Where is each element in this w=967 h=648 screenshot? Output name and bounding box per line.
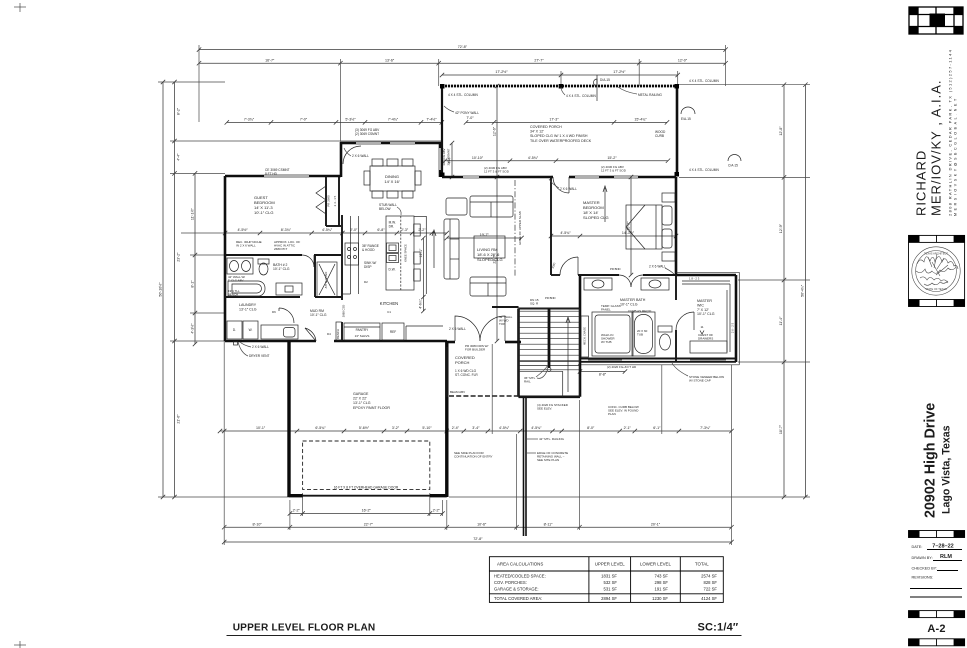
svg-text:DISP: DISP <box>364 265 371 269</box>
svg-text:SLOPED CLG W/ 1 X 4 WD FINISH: SLOPED CLG W/ 1 X 4 WD FINISH <box>530 134 588 138</box>
stair rail leader loop <box>537 371 547 378</box>
WIC chest of drawers <box>690 341 727 353</box>
dim: porch inner row <box>464 120 669 124</box>
svg-text:7′ X 12′: 7′ X 12′ <box>697 308 709 312</box>
svg-text:16 FT X 8 FT OVERHEAD GARAGE D: 16 FT X 8 FT OVERHEAD GARAGE DOOR <box>334 486 399 490</box>
titleblock: checker bar below stamp <box>909 300 965 307</box>
svg-text:ST. CONC. FLR: ST. CONC. FLR <box>455 373 478 377</box>
wall: master bedroom east <box>675 177 678 275</box>
svg-text:MECH. CHASE: MECH. CHASE <box>582 327 586 345</box>
master bath vanities <box>584 278 669 290</box>
retaining wall below entry <box>524 398 527 536</box>
svg-text:4′-5¾″: 4′-5¾″ <box>560 231 571 235</box>
svg-text:AREA CALCULATIONS: AREA CALCULATIONS <box>497 562 543 567</box>
marker: C/A-15 <box>728 155 741 162</box>
svg-text:DATE:: DATE: <box>912 545 923 549</box>
svg-text:TILE OVER WATERPROOFED DECK: TILE OVER WATERPROOFED DECK <box>530 139 592 143</box>
svg-text:11′-4″: 11′-4″ <box>779 316 783 326</box>
svg-text:2894 SF: 2894 SF <box>601 596 617 601</box>
svg-text:4 X 4 STL. COLUMN: 4 X 4 STL. COLUMN <box>689 79 719 83</box>
svg-text:8′-1″: 8′-1″ <box>190 280 194 288</box>
svg-text:LOWER LEVEL: LOWER LEVEL <box>640 562 672 567</box>
svg-text:8′-0″: 8′-0″ <box>587 426 595 430</box>
dim: right overall <box>803 83 807 500</box>
svg-text:743 SF: 743 SF <box>654 574 668 579</box>
svg-text:4′-3½″: 4′-3½″ <box>190 323 194 334</box>
svg-text:RAIL: RAIL <box>524 380 531 384</box>
kitchen stools <box>414 224 421 281</box>
svg-text:PORCH: PORCH <box>455 360 470 365</box>
svg-text:2′-2″: 2′-2″ <box>293 509 301 513</box>
stone veneer offset outline (bath block) <box>578 272 739 365</box>
svg-text:SEE ELEV.: SEE ELEV. <box>537 407 552 411</box>
svg-text:DRAWN BY:: DRAWN BY: <box>912 556 933 560</box>
bath2 vanity <box>227 258 253 274</box>
svg-text:2574 SF: 2574 SF <box>701 574 717 579</box>
svg-text:DR.: DR. <box>389 224 395 228</box>
wall: guest bedroom top <box>225 175 341 178</box>
wall: east exterior (bath block) <box>735 275 738 362</box>
svg-text:19′-7″: 19′-7″ <box>480 233 490 237</box>
svg-text:E/A-15: E/A-15 <box>681 117 691 121</box>
svg-text:UPPER LEVEL: UPPER LEVEL <box>595 562 626 567</box>
nightstands <box>662 193 675 261</box>
svg-text:COV. PORCHES:: COV. PORCHES: <box>494 580 527 585</box>
svg-text:532 SF: 532 SF <box>603 580 617 585</box>
wall: entry porch top w/ double door opening <box>447 341 521 344</box>
door: WIC <box>676 312 694 330</box>
svg-text:4′-5¾″: 4′-5¾″ <box>531 426 542 430</box>
svg-text:UPPER LEVEL FLOOR PLAN: UPPER LEVEL FLOOR PLAN <box>233 623 376 634</box>
wall: 42in wall at stair top <box>492 306 519 308</box>
svg-text:4′-5¼″: 4′-5¼″ <box>322 228 333 232</box>
svg-text:4124 SF: 4124 SF <box>701 596 717 601</box>
beam above entry porch (dashed) <box>449 395 519 397</box>
svg-text:SQ. R: SQ. R <box>530 302 539 306</box>
titleblock: checker bar above stamp <box>909 235 965 242</box>
svg-text:20′-1″: 20′-1″ <box>651 522 661 526</box>
wall: house bottom (laundry/mud/kitchen) <box>225 340 447 343</box>
svg-text:7′-4½″: 7′-4½″ <box>426 118 437 122</box>
svg-text:5′-6½″: 5′-6½″ <box>359 426 370 430</box>
wall: porch left pony wall <box>441 86 443 177</box>
svg-text:4′-6¼″: 4′-6¼″ <box>419 298 423 308</box>
dim: right row1 <box>782 83 786 500</box>
WIC closet rods <box>682 281 730 352</box>
kitchen counter along west wall <box>343 216 359 294</box>
svg-text:TUB: TUB <box>637 333 643 337</box>
svg-text:50′-10½″: 50′-10½″ <box>158 282 162 297</box>
dim: left row2 <box>172 80 176 499</box>
dim: kitchen vertical <box>421 236 425 313</box>
svg-text:BELOW: BELOW <box>379 207 391 211</box>
dim: bottom row2 <box>222 525 734 529</box>
svg-text:4′-5½″: 4′-5½″ <box>237 228 248 232</box>
svg-text:12′-8″: 12′-8″ <box>779 126 783 136</box>
svg-text:2′-2″: 2′-2″ <box>418 228 426 232</box>
dim: dining east 4-4 <box>450 141 454 179</box>
svg-text:C1: C1 <box>387 310 391 314</box>
door: master to porch <box>553 177 569 193</box>
svg-text:CHECKED BY:: CHECKED BY: <box>912 567 938 571</box>
attic stair <box>317 262 337 297</box>
svg-text:10′-1″ CLG: 10′-1″ CLG <box>697 312 715 316</box>
svg-text:TOTAL: TOTAL <box>695 562 709 567</box>
svg-text:PLAN: PLAN <box>608 412 616 416</box>
wall: interior x=342 (mud/kitchen) <box>341 215 343 341</box>
svg-text:BENCH: BENCH <box>336 329 340 339</box>
svg-text:10′-1″ CLG: 10′-1″ CLG <box>254 210 274 215</box>
svg-text:SLOPED CLG: SLOPED CLG <box>583 215 609 220</box>
wall: garage bottom <box>289 494 447 497</box>
wall: stairwell left <box>517 309 520 397</box>
svg-text:W/ TUB: W/ TUB <box>601 340 611 344</box>
ref <box>382 323 404 340</box>
svg-text:722 SF: 722 SF <box>703 587 717 592</box>
svg-text:MASTER: MASTER <box>697 299 712 303</box>
dim: row y=233 left extension <box>181 232 225 234</box>
svg-text:KNEE SPACE: KNEE SPACE <box>404 244 408 262</box>
door: bath2 <box>302 255 314 267</box>
svg-text:16′-7″: 16′-7″ <box>265 58 275 62</box>
wall: master west x=551 <box>550 177 552 275</box>
svg-text:4 X 4 STL. COLUMN: 4 X 4 STL. COLUMN <box>448 93 478 97</box>
svg-text:6′-1″: 6′-1″ <box>653 426 661 430</box>
svg-text:22′-7″: 22′-7″ <box>364 522 374 526</box>
bath2 bench seat <box>276 283 302 295</box>
column: porch corners 4x4 <box>440 84 679 177</box>
svg-text:COVERED PORCH: COVERED PORCH <box>530 125 562 129</box>
svg-text:CURB AS REQ’D: CURB AS REQ’D <box>628 309 652 313</box>
living rm chair bottom <box>470 277 506 296</box>
svg-text:DRYER VENT: DRYER VENT <box>249 354 270 358</box>
svg-text:TOP: TOP <box>499 322 505 326</box>
garage door dashed 16x8 overhead <box>303 441 430 489</box>
svg-text:SLOPED CLG: SLOPED CLG <box>477 257 503 262</box>
living rm coffee table <box>474 236 505 258</box>
crop mark bottom-left <box>14 641 26 648</box>
svg-text:2 X 6 WALL: 2 X 6 WALL <box>352 154 369 158</box>
svg-text:REVISIONS:: REVISIONS: <box>912 576 934 580</box>
wall: x=315 bath2 east <box>314 255 316 297</box>
dim: bottom mid row (y=431) <box>218 429 734 433</box>
svg-text:8′-2″: 8′-2″ <box>177 107 181 115</box>
pantry <box>344 323 380 340</box>
svg-text:20902 High Drive: 20902 High Drive <box>923 403 939 518</box>
svg-text:7′-4¾″: 7′-4¾″ <box>388 118 399 122</box>
titleblock: stamp box <box>909 242 965 299</box>
dim extension lines bottom <box>224 341 731 545</box>
svg-text:GARAGE & STORAGE:: GARAGE & STORAGE: <box>494 587 539 592</box>
living sight arrow <box>432 230 436 268</box>
marker: E/A-15 <box>681 107 695 114</box>
svg-text:10′-1″: 10′-1″ <box>256 426 266 430</box>
svg-text:D.: D. <box>233 328 236 332</box>
svg-text:D6: D6 <box>272 310 276 314</box>
svg-text:2′-2″: 2′-2″ <box>433 509 441 513</box>
wall: garage right <box>445 341 448 497</box>
svg-text:W/ STONE CAP: W/ STONE CAP <box>689 379 711 383</box>
svg-text:METAL RAILING: METAL RAILING <box>638 93 662 97</box>
svg-text:11: 11 <box>700 325 703 329</box>
svg-text:27′-7″: 27′-7″ <box>534 58 544 62</box>
bar edge line <box>414 216 426 294</box>
wall: master bedroom bottom y=275 <box>551 274 676 276</box>
window: guest top <box>264 175 309 177</box>
svg-text:MERSIOVSKY@SBCGLOBAL.NET: MERSIOVSKY@SBCGLOBAL.NET <box>954 96 958 216</box>
dim: living room row <box>445 236 524 240</box>
dim: master bedroom vertical <box>629 175 633 277</box>
dim: living vertical chain <box>495 84 499 343</box>
svg-text:1230 SF: 1230 SF <box>652 596 668 601</box>
svg-text:2680 PKT: 2680 PKT <box>274 247 288 251</box>
svg-text:12′-0″: 12′-0″ <box>678 58 688 62</box>
svg-text:12′-6″: 12′-6″ <box>492 126 496 136</box>
svg-text:ATTIC STAIR: ATTIC STAIR <box>324 272 328 289</box>
svg-text:7′-0″: 7′-0″ <box>300 118 308 122</box>
wall: dining top <box>341 142 441 145</box>
svg-text:34′ X 12′: 34′ X 12′ <box>530 130 544 134</box>
svg-text:D.W.: D.W. <box>389 268 396 272</box>
door: master bedroom (south wall) <box>560 257 578 275</box>
svg-text:8′-8″: 8′-8″ <box>599 372 607 376</box>
entry double doors <box>455 316 505 341</box>
svg-text:SEE SITE PLAN: SEE SITE PLAN <box>537 458 559 462</box>
titleblock: checker bar above date <box>909 531 965 538</box>
svg-text:CONTINUATION OF ENTRY: CONTINUATION OF ENTRY <box>454 455 493 459</box>
svg-text:6′-5¾″: 6′-5¾″ <box>315 426 326 430</box>
svg-text:7′-0″: 7′-0″ <box>466 116 474 120</box>
dim: bottom overall 72-8 <box>222 540 734 544</box>
svg-text:6′-8″: 6′-8″ <box>377 228 385 232</box>
svg-text:KITCHEN: KITCHEN <box>380 301 398 306</box>
wall: bath/WIC divider x=676 <box>675 275 677 362</box>
dim: bottom row garage-door <box>288 511 445 515</box>
svg-text:MASTER BATH: MASTER BATH <box>620 298 646 302</box>
door: master bath entry <box>619 275 643 287</box>
svg-text:12′-1″: 12′-1″ <box>419 248 423 257</box>
svg-text:3068 CSMNT: 3068 CSMNT <box>447 148 451 165</box>
svg-text:HEATED/COOLED SPACE:: HEATED/COOLED SPACE: <box>494 574 546 579</box>
edge of upper slab (dash-dot) <box>514 180 516 276</box>
svg-text:REF: REF <box>390 330 396 334</box>
svg-text:42″ MTL. RAILING: 42″ MTL. RAILING <box>539 437 565 441</box>
svg-text:3068 CSD: 3068 CSD <box>342 305 346 317</box>
master bed <box>626 205 672 249</box>
svg-text:42″ PONY WALL: 42″ PONY WALL <box>455 111 479 115</box>
marker: D/A-15 <box>594 75 597 101</box>
svg-text:1831 SF: 1831 SF <box>601 574 617 579</box>
svg-text:191 SF: 191 SF <box>654 587 668 592</box>
svg-text:23′-2″: 23′-2″ <box>177 252 181 262</box>
svg-text:2 6 - 2 5: 2 6 - 2 5 <box>731 322 735 333</box>
wall: covered porch top (deck edge w/ railing) <box>442 85 677 88</box>
svg-text:13′-6″: 13′-6″ <box>385 58 395 62</box>
wall: dining east <box>439 143 442 177</box>
svg-text:RICHARD: RICHARD <box>914 150 929 216</box>
svg-text:21′-6″: 21′-6″ <box>177 414 181 424</box>
svg-text:15′-2″: 15′-2″ <box>607 156 617 160</box>
wall: bath block bottom (stone veneer) <box>580 359 736 362</box>
svg-text:4′-4″: 4′-4″ <box>177 153 181 161</box>
svg-text:7′-3¾″: 7′-3¾″ <box>244 118 255 122</box>
dim: row y=122 guest/top <box>225 120 444 124</box>
stamp: texas architect seal <box>912 247 960 295</box>
svg-text:(2) 3069 CSMNT: (2) 3069 CSMNT <box>355 132 379 136</box>
svg-text:2808 RATHLIN DRIVE, CEDAR PARK: 2808 RATHLIN DRIVE, CEDAR PARK, TX (512)… <box>948 49 953 216</box>
svg-text:17′-3″: 17′-3″ <box>549 118 559 122</box>
svg-text:14′ X 16′: 14′ X 16′ <box>384 179 400 184</box>
svg-text:8′-3¾″: 8′-3¾″ <box>281 228 292 232</box>
svg-text:10′-1″ CLG: 10′-1″ CLG <box>273 267 290 271</box>
svg-text:PANEL: PANEL <box>601 308 611 312</box>
svg-text:PR BND: PR BND <box>610 267 621 271</box>
dim: master bedroom row <box>549 234 678 238</box>
svg-text:12 FT 3 & FT SOD: 12 FT 3 & FT SOD <box>601 169 627 173</box>
svg-text:Lago Vista, Texas: Lago Vista, Texas <box>941 425 953 514</box>
svg-text:IN 2 X 6 WALL: IN 2 X 6 WALL <box>236 244 256 248</box>
svg-text:D/A-15: D/A-15 <box>600 78 610 82</box>
dim: row y=233 laundry/kitchen <box>223 231 449 235</box>
laundry W/D <box>227 321 298 339</box>
svg-text:TOTAL COVERED AREA:: TOTAL COVERED AREA: <box>494 596 542 601</box>
wall: west exterior <box>224 176 227 341</box>
dim: top overall 72-8 <box>197 47 728 51</box>
laundry sink in counter <box>284 328 296 338</box>
svg-text:56′-4¾″: 56′-4¾″ <box>801 284 805 297</box>
svg-text:10′-6″: 10′-6″ <box>477 522 487 526</box>
svg-text:11′-1½″: 11′-1½″ <box>190 208 194 221</box>
svg-text:RLM: RLM <box>940 554 952 560</box>
stairs <box>519 309 580 397</box>
svg-text:D2: D2 <box>364 280 368 284</box>
svg-text:2 X 6 WALL: 2 X 6 WALL <box>252 345 269 349</box>
bath2 toilet <box>258 259 269 275</box>
svg-text:298 SF: 298 SF <box>654 580 668 585</box>
svg-text:TEXAS ARCHITECT: TEXAS ARCHITECT <box>924 252 948 256</box>
crop mark top-left <box>14 3 26 12</box>
svg-text:2′-0″: 2′-0″ <box>350 228 358 232</box>
svg-text:EPOXY PAINT FLOOR: EPOXY PAINT FLOOR <box>353 406 390 410</box>
svg-text:PR 2680: PR 2680 <box>327 195 331 207</box>
svg-text:1 8 - 2 3: 1 8 - 2 3 <box>689 277 700 281</box>
wall: guest closet <box>326 176 341 226</box>
window: dining east <box>439 148 441 170</box>
svg-text:STATE OF TEXAS: STATE OF TEXAS <box>925 287 947 291</box>
wall: covered porch right <box>676 86 679 176</box>
svg-text:13″ SHLVS: 13″ SHLVS <box>355 334 370 338</box>
svg-text:3069 FG ABV: 3069 FG ABV <box>442 148 446 165</box>
svg-text:W.: W. <box>249 328 253 332</box>
svg-text:4 X 4 STL. COLUMN: 4 X 4 STL. COLUMN <box>689 168 719 172</box>
wall: garage left <box>287 341 290 497</box>
walk-in shower <box>592 312 633 356</box>
svg-text:GARAGE: GARAGE <box>353 392 369 396</box>
dim: master bath window dim <box>578 369 627 373</box>
svg-text:A-2: A-2 <box>927 623 945 635</box>
svg-text:3080: 3080 <box>551 262 557 270</box>
svg-text:CURB: CURB <box>655 134 664 138</box>
stair center rail <box>548 309 551 369</box>
svg-text:17′-2½″: 17′-2½″ <box>495 70 508 74</box>
svg-text:7–28–22: 7–28–22 <box>932 544 953 550</box>
dim: left row3 <box>193 171 197 346</box>
dim extension lines top <box>199 45 726 176</box>
dim: porch lower row <box>443 159 670 163</box>
svg-text:(2) 4020 FG+8 FT HD: (2) 4020 FG+8 FT HD <box>607 365 637 369</box>
door: mud rm pocket 2680 <box>305 328 316 341</box>
wall: step between guest and dining <box>340 142 343 177</box>
svg-text:3′-4″: 3′-4″ <box>472 426 480 430</box>
entry porch side walls hatch <box>446 347 448 397</box>
svg-text:15′-4¾″: 15′-4¾″ <box>634 118 647 122</box>
kitchen island <box>386 216 414 290</box>
svg-text:531 SF: 531 SF <box>603 587 617 592</box>
svg-text:12 FT 3 & FT SOD: 12 FT 3 & FT SOD <box>484 170 510 174</box>
svg-text:12′-9″: 12′-9″ <box>779 223 783 233</box>
svg-text:10′-1″ CLG: 10′-1″ CLG <box>620 302 638 306</box>
svg-text:22′ X 22′: 22′ X 22′ <box>353 397 367 401</box>
svg-text:T. CLG ABV: T. CLG ABV <box>228 278 243 282</box>
window: dining top x2 <box>356 142 415 144</box>
svg-text:2 X 6 WALL: 2 X 6 WALL <box>649 265 666 269</box>
wall: porch bottom / living-master top <box>442 176 551 179</box>
svg-text:4′-5¾″: 4′-5¾″ <box>499 426 510 430</box>
svg-text:2′-3″: 2′-3″ <box>401 228 409 232</box>
title underline <box>227 634 742 636</box>
svg-text:7′-3¼″: 7′-3¼″ <box>700 426 711 430</box>
wall: master bedroom top <box>551 176 676 179</box>
svg-text:BENCH: BENCH <box>228 292 238 296</box>
range <box>345 243 359 265</box>
svg-text:WIC: WIC <box>697 303 704 307</box>
living rm chair top-left <box>446 198 467 215</box>
svg-text:8′-10″: 8′-10″ <box>252 522 262 526</box>
stair direction arrow <box>566 317 570 392</box>
svg-text:2 X 6 WALL: 2 X 6 WALL <box>560 187 577 191</box>
svg-text:13′-1″ CLG: 13′-1″ CLG <box>239 307 257 311</box>
svg-text:5′-3½″: 5′-3½″ <box>345 118 356 122</box>
svg-text:5′-10″: 5′-10″ <box>422 426 432 430</box>
titleblock: bottom checker bar <box>909 639 965 646</box>
wall: bath2 top y=255 <box>225 254 341 256</box>
svg-text:4 X 4 STL. COLUMN: 4 X 4 STL. COLUMN <box>566 94 596 98</box>
svg-text:18′-7″: 18′-7″ <box>779 424 783 434</box>
svg-text:2′-1″: 2′-1″ <box>624 426 632 430</box>
svg-text:LAUNDRY: LAUNDRY <box>239 303 257 307</box>
svg-text:MER/IOV/KY , A.I.A.: MER/IOV/KY , A.I.A. <box>929 79 944 216</box>
svg-text:2 X 6 WALL: 2 X 6 WALL <box>449 327 466 331</box>
master toilet <box>658 326 672 350</box>
wall: stair right / bath left <box>579 275 582 397</box>
dim extension lines right <box>449 85 810 497</box>
dryer vent box <box>234 342 238 346</box>
titleblock logo (checkered) <box>909 7 963 34</box>
svg-text:2′-4″: 2′-4″ <box>452 426 460 430</box>
svg-text:8′-11″: 8′-11″ <box>544 522 554 526</box>
svg-text:8 FT HD: 8 FT HD <box>265 172 278 176</box>
wall: stairwell top <box>519 308 581 310</box>
dim: top row2 <box>197 61 728 65</box>
titleblock: checker bar above sheet no <box>909 611 965 618</box>
kitchen back counter <box>406 326 443 340</box>
wall: WIC top <box>676 274 736 277</box>
svg-text:828 SF: 828 SF <box>703 580 717 585</box>
svg-text:16′-2″: 16′-2″ <box>362 509 372 513</box>
svg-text:& HOOD: & HOOD <box>362 248 375 252</box>
svg-text:FOR BUILDER: FOR BUILDER <box>465 348 486 352</box>
svg-text:PR BND: PR BND <box>545 296 556 300</box>
